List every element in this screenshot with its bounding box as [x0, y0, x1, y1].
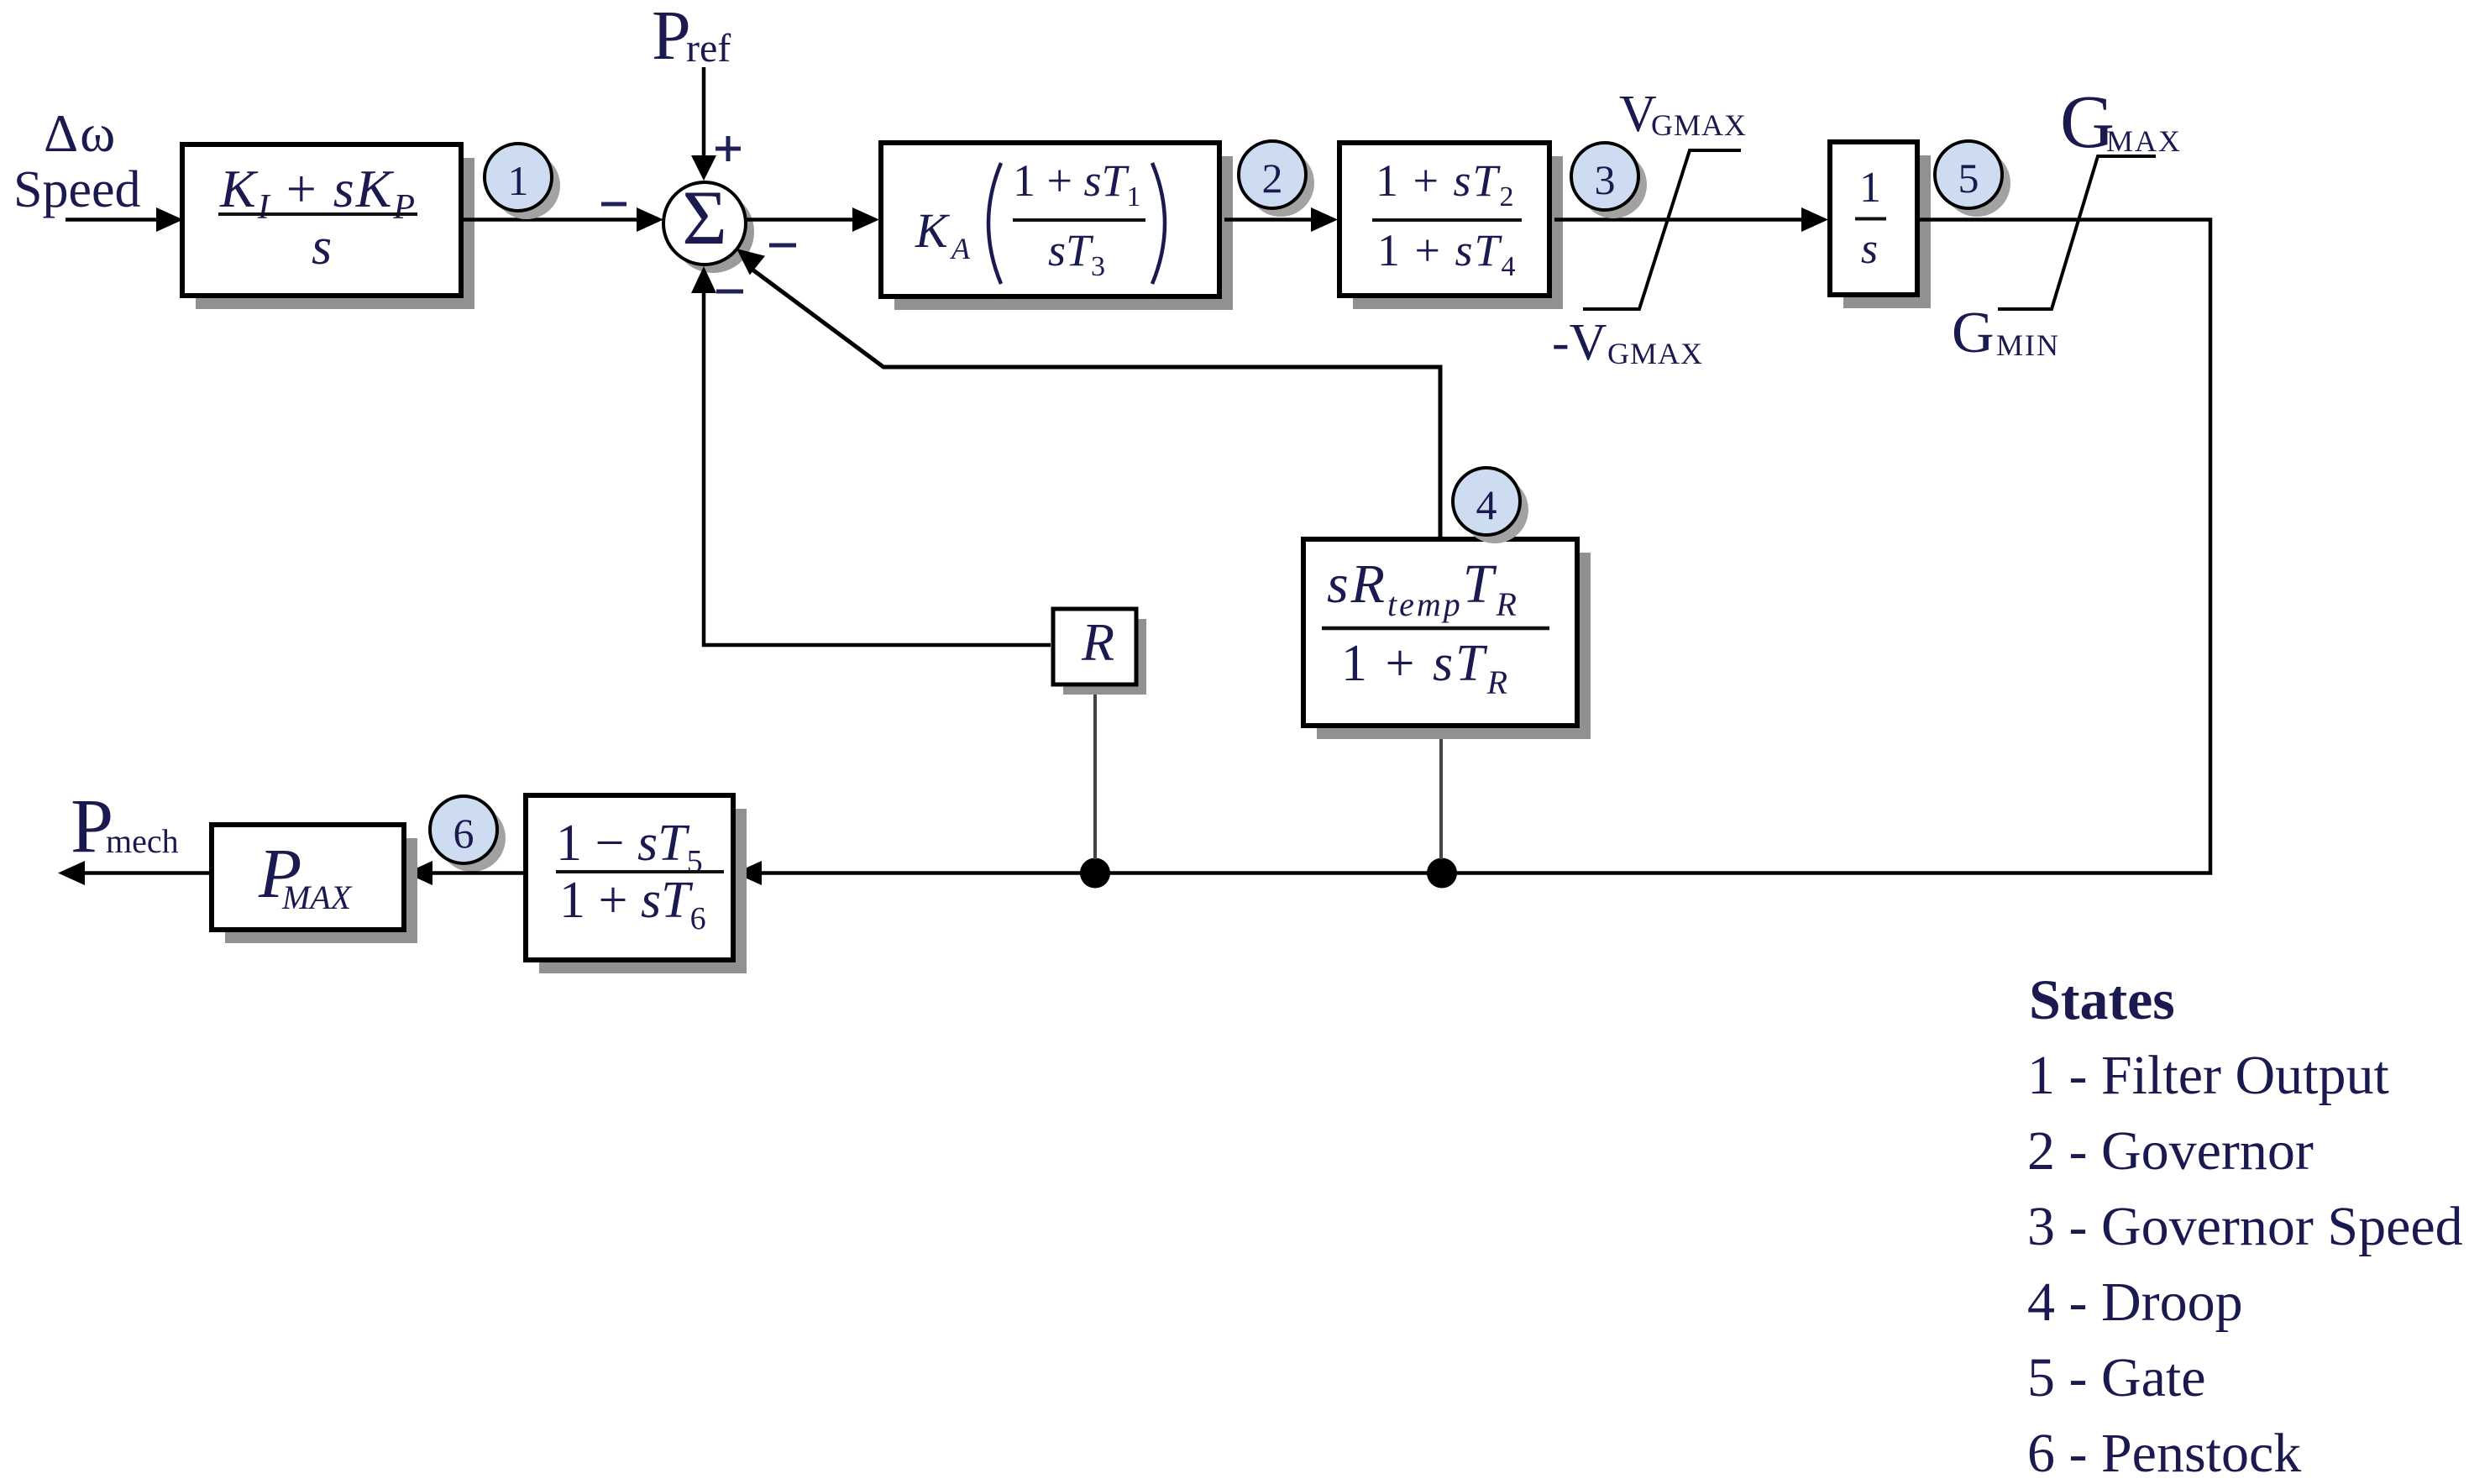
legend item 5 Gate	[2027, 1347, 2206, 1408]
svg-text:4: 4	[1476, 481, 1497, 528]
wire integrator right then down then bottom line to block penstock	[735, 220, 2210, 886]
label -VGMAX	[1552, 314, 1703, 371]
plus sign at sum top input	[716, 136, 741, 161]
label Pref	[652, 0, 731, 75]
svg-text:1: 1	[1859, 164, 1881, 212]
svg-text:GMAX: GMAX	[1607, 337, 1703, 370]
wire junction dot up to block droop	[1439, 727, 1443, 859]
value label R	[1081, 612, 1114, 672]
wire input arrow into block 1	[66, 207, 183, 232]
svg-text:mech: mech	[106, 822, 179, 860]
svg-text:3 - Governor Speed: 3 - Governor Speed	[2027, 1196, 2463, 1257]
state circle 1	[485, 144, 560, 219]
value label equation 1/s	[1855, 164, 1886, 273]
wire block T2T4 to integrator	[1554, 207, 1828, 232]
svg-text:6: 6	[453, 810, 474, 857]
block 1 filter (KI+sKP)/s	[182, 144, 474, 309]
svg-text:1 - Filter Output: 1 - Filter Output	[2027, 1045, 2389, 1106]
state circle 5	[1935, 141, 2010, 217]
svg-text:KI + sKP: KI + sKP	[219, 159, 417, 227]
wire Pref down into sum junction	[691, 67, 716, 181]
limiter VGMAX saturation symbol	[1583, 150, 1741, 309]
svg-text:1 − sT5: 1 − sT5	[556, 815, 703, 879]
svg-text:Δω: Δω	[44, 103, 117, 163]
state circle 4	[1453, 468, 1528, 543]
label input Delta-omega	[44, 103, 117, 163]
svg-text:MIN: MIN	[1996, 328, 2060, 362]
value label equation (1-sT5)/(1+sT6)	[556, 815, 724, 936]
junction dot left (R tap)	[1080, 858, 1110, 889]
legend item 4 Droop	[2027, 1272, 2243, 1333]
svg-text:5 - Gate: 5 - Gate	[2027, 1347, 2206, 1408]
wire junction dot up to block R	[1093, 686, 1097, 859]
svg-text:4 - Droop: 4 - Droop	[2027, 1272, 2243, 1333]
svg-text:5: 5	[1958, 155, 1979, 202]
svg-text:R: R	[1081, 612, 1114, 672]
state circle 6	[430, 796, 506, 872]
svg-text:s: s	[1861, 225, 1878, 273]
label GMAX	[2060, 81, 2182, 164]
wire droop feedback diagonal into sum junction	[737, 249, 1440, 538]
block integrator 1/s	[1830, 142, 1931, 308]
block PMAX limit	[212, 825, 417, 943]
sum junction	[663, 175, 754, 273]
svg-text:Speed: Speed	[13, 161, 141, 218]
svg-text:2 - Governor: 2 - Governor	[2027, 1120, 2314, 1182]
wire block KA to block T2T4	[1224, 207, 1338, 232]
legend item 6 Penstock	[2027, 1423, 2301, 1484]
junction dot right (droop tap)	[1427, 858, 1457, 889]
block KA lead-lag	[881, 143, 1233, 310]
minus sign at sum bottom input	[716, 290, 743, 294]
svg-text:1: 1	[508, 157, 529, 204]
wire block penstock to block PMAX	[406, 861, 523, 885]
svg-text:GMAX: GMAX	[1651, 108, 1747, 142]
svg-text:States: States	[2029, 967, 2175, 1031]
value label equation KA(1+sT1)/(sT3)	[915, 155, 1165, 284]
block droop sRtempTR/(1+sTR)	[1303, 539, 1591, 739]
state circle 3	[1571, 143, 1647, 218]
svg-text:K: K	[915, 203, 951, 258]
wire block 1 to sum junction	[461, 207, 663, 232]
svg-text:1 + sT6: 1 + sT6	[559, 872, 706, 936]
svg-text:A: A	[950, 232, 971, 265]
svg-text:-V: -V	[1552, 314, 1607, 371]
legend item 3 Governor Speed	[2027, 1196, 2463, 1257]
svg-text:3: 3	[1595, 156, 1616, 203]
legend title States	[2029, 967, 2175, 1031]
svg-text:MAX: MAX	[281, 878, 353, 916]
value label equation (KI+sKP)/s	[218, 159, 417, 275]
limiter GMAX saturation symbol	[1998, 156, 2156, 309]
value label equation (1+sT2)/(1+sT4)	[1372, 155, 1522, 282]
state circle 2	[1239, 141, 1314, 217]
value label PMAX	[258, 835, 353, 916]
label Pmech	[71, 783, 179, 868]
svg-text:P: P	[652, 0, 691, 75]
wire sum junction to block KA	[746, 207, 879, 232]
wire R feedback up into sum junction bottom	[691, 266, 1051, 645]
value label equation sRtempTR/(1+sTR)	[1322, 553, 1549, 701]
svg-text:1 + sT2: 1 + sT2	[1376, 155, 1516, 212]
svg-text:6 - Penstock: 6 - Penstock	[2027, 1423, 2301, 1484]
legend item 1 Filter Output	[2027, 1045, 2389, 1106]
svg-text:MAX: MAX	[2106, 124, 2182, 158]
block T2T4 lead-lag	[1339, 143, 1563, 309]
svg-text:G: G	[1952, 301, 1995, 365]
label GMIN	[1952, 301, 2060, 365]
svg-text:1 + sT4: 1 + sT4	[1377, 225, 1518, 282]
minus sign at sum left input	[601, 202, 626, 207]
block R droop gain	[1053, 609, 1146, 695]
label VGMAX	[1619, 86, 1747, 143]
block penstock (1-sT5)/(1+sT6)	[526, 795, 747, 973]
svg-text:s: s	[312, 218, 332, 275]
label input Speed	[13, 161, 141, 218]
svg-text:Σ: Σ	[682, 175, 727, 260]
svg-text:ref: ref	[686, 26, 731, 71]
svg-text:1 + sT1: 1 + sT1	[1013, 155, 1141, 212]
svg-text:1 + sTR: 1 + sTR	[1341, 635, 1510, 701]
legend item 2 Governor	[2027, 1120, 2314, 1182]
svg-text:2: 2	[1262, 155, 1283, 202]
minus sign at sum diagonal input	[769, 244, 796, 248]
wire PMAX to output Pmech	[58, 861, 209, 885]
